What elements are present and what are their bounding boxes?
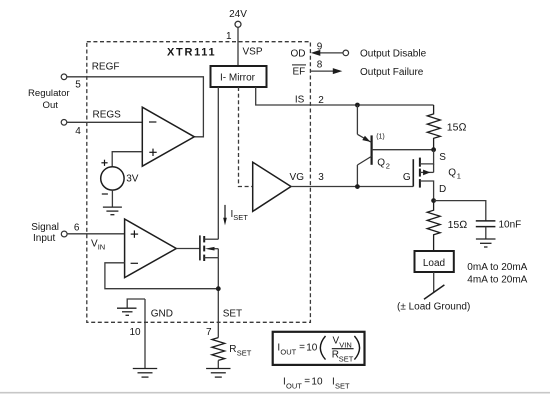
svg-text:SET: SET — [237, 349, 252, 358]
svg-text:Q: Q — [377, 158, 385, 169]
svg-text:SET: SET — [233, 213, 248, 222]
svg-text:REGF: REGF — [92, 62, 120, 73]
op-amp A1 regulator amp — [142, 107, 194, 166]
svg-text:EF: EF — [293, 66, 306, 77]
pin 7 label — [206, 327, 212, 338]
node S junction — [431, 147, 436, 152]
svg-text:VSP: VSP — [243, 47, 263, 58]
label load ground — [397, 302, 470, 313]
wire MOSFET source to SET node — [217, 258, 219, 338]
svg-text:VIN: VIN — [339, 340, 352, 349]
svg-text:15Ω: 15Ω — [448, 219, 468, 231]
wire GND pin to earth ground — [144, 299, 146, 369]
ground for 3V source — [103, 207, 122, 215]
label VG — [290, 172, 305, 183]
resistor R1 15ohm top — [427, 105, 466, 150]
capacitor C1 10nF — [476, 220, 521, 239]
OD wire with arrow into box — [311, 50, 343, 56]
node IS-Q2 junction — [355, 103, 360, 108]
op-amp A2 input amp — [125, 219, 177, 278]
bottom page rule — [0, 392, 550, 394]
formula IOUT = 10 ISET — [283, 376, 350, 390]
XTR111 dashed boundary box — [87, 42, 311, 323]
node D junction — [431, 198, 436, 203]
svg-text:5: 5 — [75, 80, 81, 91]
label XTR111 — [167, 47, 216, 59]
svg-text:2: 2 — [386, 162, 390, 171]
pin 2 label — [318, 95, 324, 106]
label Signal Input — [31, 222, 59, 244]
svg-text:24V: 24V — [229, 9, 247, 20]
svg-text:S: S — [439, 152, 446, 163]
svg-text:VG: VG — [290, 172, 305, 183]
label REGF — [92, 62, 120, 73]
svg-text:0mA to 20mA: 0mA to 20mA — [467, 262, 527, 273]
svg-text:=: = — [304, 376, 310, 387]
label output current range — [467, 262, 527, 285]
svg-text:Out: Out — [43, 100, 59, 111]
node SET junction — [216, 286, 221, 291]
svg-text:IS: IS — [295, 95, 305, 106]
wire I-Mirror to IS pin — [256, 87, 434, 105]
op-amp A3 VG driver — [253, 162, 291, 211]
Signal input terminal pin 6 — [61, 222, 80, 237]
load ground slash — [424, 285, 444, 299]
24V supply terminal — [229, 9, 247, 27]
footnote (1) — [376, 134, 385, 141]
label SET — [223, 309, 242, 320]
svg-text:Output Disable: Output Disable — [360, 49, 427, 60]
pin VSP label — [243, 47, 263, 58]
label VIN — [91, 239, 105, 252]
svg-text:1: 1 — [226, 31, 232, 42]
svg-text:Regulator: Regulator — [28, 88, 70, 99]
Output Disable terminal — [343, 50, 349, 56]
wire op-amp A2 output to MOSFET gate — [176, 248, 200, 250]
svg-text:(1): (1) — [376, 134, 385, 141]
pin 9 label — [317, 42, 323, 53]
formula box IOUT equation — [273, 332, 365, 365]
svg-text:3: 3 — [318, 172, 324, 183]
pin 1 label — [226, 31, 232, 42]
ISET current arrow — [223, 205, 248, 226]
svg-text:4: 4 — [75, 126, 81, 137]
wire 3V source to ground — [111, 190, 113, 207]
svg-text:IN: IN — [98, 243, 106, 252]
transistor Q2 PNP — [357, 134, 433, 186]
svg-text:1: 1 — [457, 172, 461, 181]
pin 3 label — [318, 172, 324, 183]
resistor RSET — [212, 338, 252, 361]
feedback wire op-amp A2 inverting input — [105, 263, 218, 289]
svg-text:SET: SET — [223, 309, 242, 320]
svg-text:XTR111: XTR111 — [167, 47, 216, 59]
svg-text:10: 10 — [311, 376, 323, 387]
wire REGF feedback — [67, 77, 204, 137]
wire VG output to gate of Q1 — [291, 186, 413, 188]
dashed wire I-Mirror to VG amp — [239, 87, 253, 187]
REGF terminal pin 5 — [61, 74, 81, 91]
svg-text:REGS: REGS — [93, 110, 122, 121]
label Output Disable — [360, 49, 427, 60]
wire D node to capacitor — [434, 201, 486, 221]
EF wire with outward arrow — [310, 68, 342, 74]
label GND — [151, 309, 173, 320]
svg-text:OUT: OUT — [286, 381, 302, 390]
svg-text:I- Mirror: I- Mirror — [220, 73, 256, 84]
svg-text:Signal: Signal — [31, 222, 59, 233]
svg-text:10: 10 — [306, 342, 318, 353]
label Regulator Out — [28, 88, 70, 111]
svg-text:=: = — [299, 342, 305, 353]
svg-text:Q: Q — [448, 168, 456, 179]
label Output Failure — [360, 67, 424, 78]
transistor M1 NMOS — [200, 235, 218, 261]
svg-text:Load: Load — [423, 258, 445, 269]
wire RSET to ground — [217, 360, 219, 368]
label Q2 — [377, 158, 390, 171]
wire 24V to VSP / I-Mirror — [237, 27, 239, 66]
I-Mirror block — [211, 66, 267, 87]
voltage source 3V — [101, 160, 139, 194]
label REGS — [93, 110, 122, 121]
label G — [403, 172, 411, 183]
Load block — [415, 251, 454, 272]
ground below pin 10 — [133, 369, 157, 378]
svg-text:OD: OD — [291, 49, 306, 60]
pin OD label — [291, 49, 306, 60]
svg-text:2: 2 — [318, 95, 324, 106]
svg-text:Output Failure: Output Failure — [360, 67, 424, 78]
pin 10 label — [129, 327, 141, 338]
svg-text:Input: Input — [33, 233, 55, 244]
svg-text:3V: 3V — [126, 173, 139, 184]
wire IS to Q2 emitter — [356, 105, 358, 134]
svg-text:(± Load Ground): (± Load Ground) — [397, 302, 470, 313]
svg-text:10: 10 — [129, 327, 141, 338]
wire Load to load ground — [433, 272, 435, 293]
resistor R2 15ohm bottom — [427, 201, 467, 251]
ground below capacitor — [476, 239, 496, 247]
REGS terminal pin 4 — [61, 120, 81, 137]
svg-text:D: D — [439, 184, 446, 195]
label D — [439, 184, 446, 195]
pin EF label (overline) — [292, 65, 306, 77]
svg-text:GND: GND — [151, 309, 173, 320]
svg-text:R: R — [229, 344, 236, 355]
GND internal ground symbol — [117, 299, 145, 315]
svg-text:SET: SET — [335, 381, 350, 390]
pin 8 label — [317, 60, 323, 71]
label S — [439, 152, 446, 163]
wire op-amp + input to 3V source — [112, 152, 142, 167]
svg-text:OUT: OUT — [280, 348, 296, 357]
svg-text:SET: SET — [339, 355, 354, 364]
svg-text:6: 6 — [74, 222, 80, 233]
label IS — [295, 95, 305, 106]
ground below RSET — [206, 369, 230, 378]
node VG-Q2 junction — [355, 184, 360, 189]
wire signal input to op-amp — [67, 233, 125, 235]
svg-text:8: 8 — [317, 60, 323, 71]
svg-text:15Ω: 15Ω — [447, 122, 467, 134]
svg-text:7: 7 — [206, 327, 212, 338]
wire MOSFET drain to I-Mirror — [217, 87, 219, 239]
svg-text:G: G — [403, 172, 411, 183]
label Q1 — [448, 168, 461, 181]
svg-text:4mA to 20mA: 4mA to 20mA — [467, 274, 527, 285]
wire REGS to op-amp inverting input — [67, 121, 143, 123]
svg-text:10nF: 10nF — [499, 220, 522, 231]
transistor Q1 PMOS — [413, 150, 433, 201]
